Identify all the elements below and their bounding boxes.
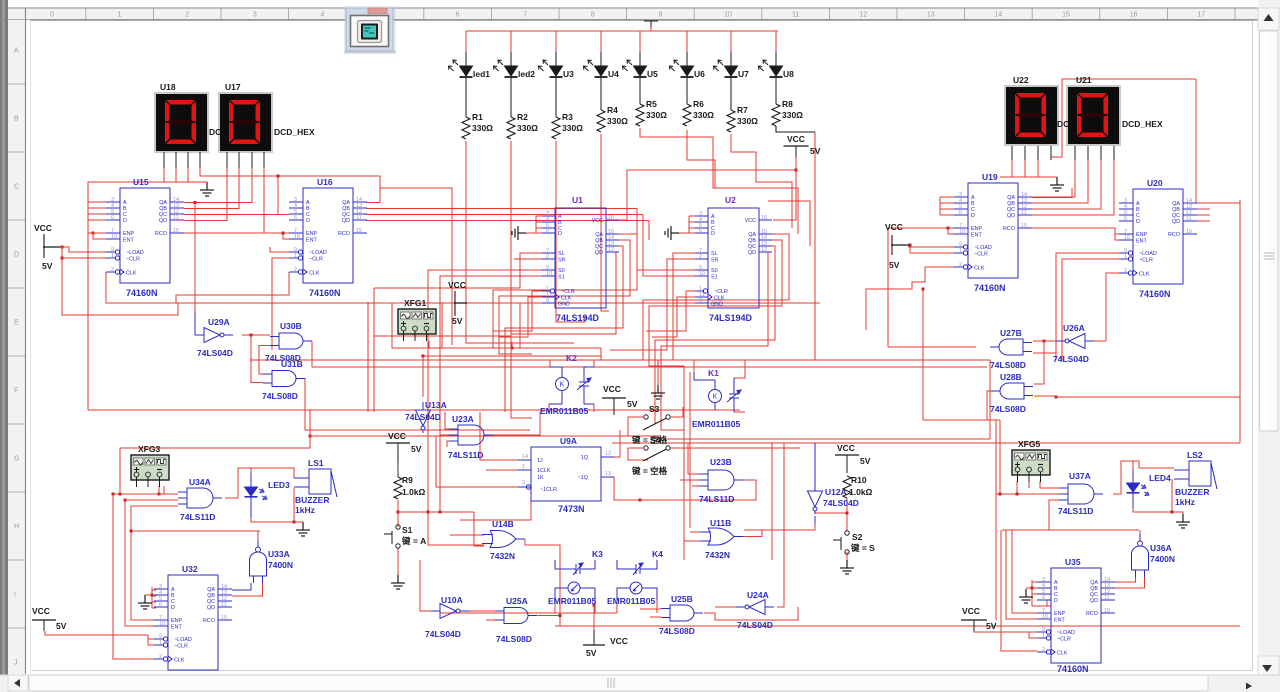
svg-text:~CLR: ~CLR [174, 644, 188, 650]
wire U27B ins [1033, 341, 1056, 353]
svg-text:~LOAD: ~LOAD [1139, 251, 1157, 257]
wire XFG5 terminal drops [1017, 481, 1059, 494]
svg-text:ENT: ENT [1136, 239, 1147, 245]
svg-text:330Ω: 330Ω [517, 123, 538, 133]
svg-text:5V: 5V [860, 456, 871, 466]
wire long left bus y367 [312, 366, 987, 368]
wire U2 QC nest [655, 246, 775, 424]
wire long vertical A [367, 302, 369, 412]
svg-text:VCC: VCC [448, 280, 466, 290]
svg-text:U19: U19 [982, 172, 998, 182]
AND gate U27B 74LS08D (left) [990, 339, 1032, 355]
wire U15 QC row to U16 C [184, 214, 278, 216]
wire U15 A-D feeds [88, 202, 106, 220]
wire U15 ENP wire [88, 232, 106, 234]
wire U32 ENT feed [125, 500, 154, 626]
svg-text:QD: QD [748, 250, 756, 256]
wire bus y348 right2 [512, 347, 601, 349]
ground (left of U35) [1019, 589, 1033, 603]
wire U31B out down [304, 378, 306, 430]
ground (left of U1) [512, 226, 526, 240]
wire U15 CLK route [106, 272, 820, 303]
svg-text:2: 2 [1042, 647, 1045, 653]
svg-text:S2: S2 [852, 532, 863, 542]
svg-text:74LS08D: 74LS08D [262, 391, 298, 401]
svg-text:U23B: U23B [710, 457, 732, 467]
wire R6 bottom run [687, 130, 798, 234]
wire R5 bottom run [640, 128, 798, 234]
wire LED anode bus [466, 30, 778, 32]
relay K1 EMR011B05 [709, 390, 722, 403]
ground (below U22/U21) [1050, 177, 1064, 191]
svg-text:10: 10 [699, 271, 705, 277]
svg-text:330Ω: 330Ω [646, 110, 667, 120]
wire QA tap down [194, 203, 196, 304]
svg-text:15: 15 [1021, 223, 1027, 229]
wire U1 QC nest [505, 246, 623, 412]
svg-text:15: 15 [221, 615, 227, 621]
svg-text:15: 15 [356, 228, 362, 234]
wire U14B top in [450, 534, 484, 536]
svg-text:10: 10 [546, 271, 552, 277]
svg-text:10: 10 [1042, 614, 1048, 620]
floating minimized subcircuit window icon [344, 6, 396, 54]
wire U32 CLK feed [113, 494, 154, 659]
svg-text:4: 4 [320, 12, 324, 19]
wire U16 QA-QD right runs [366, 188, 682, 345]
wire right low bus y530 [1002, 529, 1139, 531]
svg-text:R9: R9 [402, 475, 413, 485]
svg-text:U10A: U10A [441, 595, 463, 605]
wire K1 coil top [694, 360, 745, 389]
wire U23B feeds [680, 443, 699, 486]
svg-text:QD: QD [342, 218, 350, 224]
svg-text:R5: R5 [646, 99, 657, 109]
svg-text:CLK: CLK [309, 271, 320, 277]
wire vertical x923 [922, 289, 924, 420]
wire bus y448 [120, 410, 310, 448]
wire U12A output (blue then red) [814, 516, 816, 524]
wire U23A feeds [440, 412, 449, 447]
VCC supply (above XFG1, center) [454, 291, 456, 316]
svg-text:1Q: 1Q [581, 455, 588, 461]
svg-text:10: 10 [159, 621, 165, 627]
svg-text:6: 6 [1042, 595, 1045, 601]
svg-text:led1: led1 [473, 69, 490, 79]
svg-text:QD: QD [1007, 213, 1015, 219]
wire vert 690 [689, 372, 691, 528]
wire U10A out to U25A [462, 610, 495, 612]
resistor R6 330 [686, 78, 688, 104]
wire U33A right input from U32 QB [232, 583, 263, 596]
svg-text:SL: SL [558, 251, 565, 257]
wire bottom bus y613 [440, 612, 617, 614]
svg-text:330Ω: 330Ω [782, 110, 803, 120]
wire U26A wire [1034, 341, 1066, 384]
LED U8 [775, 52, 777, 66]
svg-text:330Ω: 330Ω [607, 116, 628, 126]
wire U20 CLK route [1106, 273, 1119, 341]
svg-text:6: 6 [159, 602, 162, 608]
wire LS2 top pin wire [1139, 467, 1174, 469]
svg-text:U27B: U27B [1000, 328, 1022, 338]
shift register U2 74LS194D [695, 208, 772, 308]
wire U35 VCC feed [974, 631, 1037, 638]
svg-text:GND: GND [558, 302, 570, 308]
svg-text:I: I [14, 592, 16, 599]
svg-text:U21: U21 [1076, 75, 1092, 85]
svg-text:ENT: ENT [306, 238, 317, 244]
wire left bus from U18 bus [88, 182, 120, 202]
wire U19 ABCD feeds [940, 197, 954, 215]
wire LS1 gnd [302, 522, 304, 528]
wire U20 LOAD CLR [1056, 253, 1119, 360]
svg-text:R7: R7 [737, 105, 748, 115]
wire U19 left tall vertical [887, 228, 889, 347]
wire U16 LOAD feed [270, 247, 289, 252]
VCC supply (left of U19) [891, 235, 893, 255]
svg-text:~CLR: ~CLR [714, 289, 728, 295]
wire U2 ABCD gnd ties [679, 216, 695, 233]
wire U15 ENP-down [87, 233, 89, 410]
wire bus y348 right [442, 342, 512, 348]
wire bus y430 left [305, 429, 530, 431]
svg-text:6: 6 [959, 210, 962, 216]
svg-text:2: 2 [111, 267, 114, 273]
svg-text:U4: U4 [608, 69, 619, 79]
svg-text:74160N: 74160N [974, 283, 1006, 293]
svg-text:1.0kΩ: 1.0kΩ [402, 487, 426, 497]
wire S3 right lead [671, 407, 683, 417]
svg-text:74160N: 74160N [126, 288, 158, 298]
wire R4 bottom run [601, 134, 609, 311]
wire K1 bottoms [700, 403, 745, 412]
svg-text:U3: U3 [563, 69, 574, 79]
svg-text:9: 9 [658, 12, 662, 19]
svg-text:DC: DC [1057, 119, 1069, 129]
svg-text:3: 3 [522, 480, 525, 486]
svg-text:XFG5: XFG5 [1018, 439, 1040, 449]
svg-text:R3: R3 [562, 112, 573, 122]
svg-text:5V: 5V [889, 260, 900, 270]
wire U35 ENT feed [1006, 530, 1037, 619]
wire U34A in3 [131, 505, 178, 507]
wire U24A in right [777, 560, 784, 607]
svg-text:SL: SL [711, 251, 718, 257]
wire U22 bus to gnd [1000, 176, 1057, 178]
wire U34A in2 [125, 499, 178, 501]
svg-text:ENP: ENP [1054, 611, 1065, 617]
wire U32 ENP feed [131, 506, 154, 620]
AND gate U30B 74LS08D [270, 333, 312, 349]
wire VCC1 down [61, 247, 63, 258]
svg-text:B: B [14, 116, 19, 123]
wire R9 tap right [398, 511, 474, 513]
wire S1 to U14B low [428, 512, 484, 545]
svg-text:RCO: RCO [1086, 611, 1098, 617]
svg-text:74LS08D: 74LS08D [659, 626, 695, 636]
wire bus y439 [665, 438, 990, 440]
7-segment display U22 [1004, 75, 1059, 146]
wire U35 QA to U36A left input [1115, 577, 1136, 582]
ground (below U18/U17) [200, 182, 214, 196]
wire U21 pin weave [1051, 79, 1196, 157]
LED U5 [639, 52, 641, 66]
wire VCC1 to LOAD [60, 247, 106, 252]
svg-text:A: A [14, 48, 19, 55]
svg-text:U9A: U9A [560, 436, 577, 446]
svg-text:R2: R2 [517, 112, 528, 122]
svg-text:U26A: U26A [1063, 323, 1085, 333]
JK flip-flop U9A 7473N [518, 447, 614, 501]
svg-text:6: 6 [546, 228, 549, 234]
wire right lower verticals [987, 420, 1000, 620]
svg-text:GND: GND [711, 302, 723, 308]
svg-text:~LOAD: ~LOAD [309, 250, 327, 256]
wire U25A feeds [486, 619, 495, 621]
svg-text:U23A: U23A [452, 414, 474, 424]
wire long vertical B [374, 288, 380, 412]
wire U2 QA nest [643, 234, 789, 360]
svg-text:E: E [14, 320, 19, 327]
resistor R10 1.0k [843, 476, 851, 498]
svg-text:74LS04D: 74LS04D [197, 348, 233, 358]
LED3 (blue) [250, 473, 252, 518]
AND gate U25B 74LS08D [661, 605, 703, 621]
resistor R1 330 [465, 78, 467, 117]
svg-text:VCC: VCC [962, 606, 980, 616]
wire U16 CLK route [176, 272, 289, 303]
svg-text:U24A: U24A [747, 590, 769, 600]
svg-text:14: 14 [522, 454, 528, 460]
svg-text:D: D [171, 605, 175, 611]
wire U19 CLK route [866, 267, 954, 330]
wire U1 SL [374, 253, 542, 288]
svg-text:~CLR: ~CLR [309, 257, 323, 263]
inverter U24A 74LS04D (left) [736, 600, 774, 615]
wire U2 S0S1 [682, 270, 695, 276]
wire R8 long vertical [814, 132, 816, 360]
svg-text:7: 7 [523, 12, 527, 19]
wire vertical 474 [474, 512, 484, 546]
switch S1 (key=A) [384, 525, 400, 548]
svg-text:5V: 5V [411, 444, 422, 454]
wire VCC-R8 feed rail y170 [627, 157, 796, 220]
svg-text:8: 8 [699, 298, 702, 304]
LED U6 [686, 52, 688, 66]
wire U30B low in [259, 346, 270, 375]
svg-text:DCD_HEX: DCD_HEX [1122, 119, 1163, 129]
VCC supply (bottom center) [583, 644, 605, 646]
wire U28B ins [1034, 396, 1056, 397]
svg-text:5V: 5V [627, 399, 638, 409]
svg-text:11: 11 [792, 12, 799, 19]
VCC supply (right of R8) [784, 145, 809, 147]
svg-text:QD: QD [1090, 598, 1098, 604]
inverter U13A 74LS04D (down) [416, 402, 431, 433]
svg-text:VCC: VCC [34, 223, 52, 233]
svg-text:U25A: U25A [506, 596, 528, 606]
wire U30B out down [311, 341, 313, 367]
svg-text:QD: QD [159, 218, 167, 224]
svg-text:VCC: VCC [592, 218, 603, 224]
svg-text:K: K [713, 394, 718, 401]
svg-text:CLK: CLK [174, 658, 185, 664]
wire R7 bottom run [731, 134, 792, 228]
svg-text:R8: R8 [782, 99, 793, 109]
wire right tall vert 1196 [1196, 79, 1197, 203]
svg-text:1CLK: 1CLK [537, 468, 551, 474]
svg-text:11: 11 [1186, 216, 1192, 222]
wire U2 QD nest [661, 252, 772, 430]
svg-text:7400N: 7400N [1150, 554, 1175, 564]
svg-text:XFG1: XFG1 [404, 298, 426, 308]
svg-text:U36A: U36A [1150, 543, 1172, 553]
svg-text:8: 8 [546, 298, 549, 304]
svg-text:12: 12 [761, 247, 767, 253]
svg-text:U13A: U13A [425, 400, 447, 410]
svg-text:6: 6 [294, 215, 297, 221]
wire U18 pin drop [163, 168, 165, 182]
svg-text:ENT: ENT [971, 233, 982, 239]
svg-text:C: C [14, 184, 19, 191]
svg-text:74160N: 74160N [309, 288, 341, 298]
svg-text:U11B: U11B [710, 518, 731, 528]
svg-text:10: 10 [111, 234, 117, 240]
wire U9A bottom loop [460, 493, 531, 520]
svg-text:K4: K4 [652, 549, 663, 559]
wire bus y436 [310, 435, 660, 437]
wire U28B bus right [1056, 203, 1240, 397]
wire bottom bus y626 [555, 625, 1240, 627]
wire U19 RCO to U20 [1032, 228, 1119, 240]
wire U22 pin drops [1012, 160, 1038, 177]
wire LED8 anode drop [775, 31, 777, 52]
AND gate U23B 74LS11D [699, 470, 743, 490]
svg-text:RCO: RCO [155, 231, 167, 237]
svg-text:U16: U16 [317, 177, 333, 187]
wire LED3 bottom [251, 488, 303, 522]
svg-text:键 = S: 键 = S [850, 543, 875, 553]
svg-text:330Ω: 330Ω [737, 116, 758, 126]
LED4 (blue) [1132, 469, 1134, 508]
svg-text:1kHz: 1kHz [295, 505, 315, 515]
svg-text:G: G [14, 456, 19, 463]
wire U34A out [225, 468, 257, 498]
svg-text:U22: U22 [1013, 75, 1029, 85]
wire LS1 top tie [257, 468, 294, 478]
svg-text:5V: 5V [56, 621, 67, 631]
wire K2 bottoms [549, 391, 594, 412]
relay K3 EMR011B05 [570, 563, 586, 575]
buzzer LS2 1kHz [1189, 461, 1211, 486]
svg-text:74LS11D: 74LS11D [1058, 506, 1093, 516]
svg-text:U34A: U34A [189, 477, 211, 487]
svg-text:LED4: LED4 [1149, 473, 1171, 483]
svg-text:15: 15 [1104, 608, 1110, 614]
svg-text:17: 17 [1197, 12, 1205, 19]
wire U32 gnd stub [145, 594, 152, 596]
svg-text:1: 1 [959, 248, 962, 254]
svg-text:U20: U20 [1147, 178, 1163, 188]
VCC supply (above R10) [835, 454, 859, 456]
wire nested corner 4 [768, 201, 810, 246]
counter U20 74160N [1119, 189, 1197, 284]
svg-text:R4: R4 [607, 105, 618, 115]
wire K1 contact top [734, 370, 745, 389]
svg-text:2: 2 [699, 254, 702, 260]
svg-text:DCD_HEX: DCD_HEX [274, 127, 315, 137]
LED U4 [600, 52, 602, 66]
svg-text:1: 1 [118, 12, 122, 19]
svg-text:ENT: ENT [171, 625, 182, 631]
svg-text:13: 13 [605, 471, 611, 477]
svg-text:16: 16 [761, 215, 767, 221]
svg-text:1: 1 [1124, 254, 1127, 260]
svg-text:2: 2 [294, 267, 297, 273]
svg-text:6: 6 [699, 228, 702, 234]
svg-text:RCO: RCO [1168, 232, 1180, 238]
svg-text:U35: U35 [1065, 557, 1081, 567]
svg-text:SR: SR [711, 258, 719, 264]
wire U12A input (blue) from bus y443 [814, 443, 816, 483]
shift register U1 74LS194D [542, 208, 619, 308]
wire S4 right lead [671, 447, 800, 449]
inverter U26A 74LS04D (left) [1056, 334, 1094, 349]
svg-text:U29A: U29A [208, 317, 230, 327]
svg-text:VCC: VCC [837, 443, 855, 453]
svg-text:13: 13 [927, 12, 935, 19]
switch S3 (key=space) [643, 415, 670, 430]
counter U15 74160N [106, 188, 184, 283]
svg-text:~1Q: ~1Q [578, 475, 588, 481]
svg-text:~LOAD: ~LOAD [126, 250, 144, 256]
wire U35 gnd stub [1026, 587, 1032, 589]
svg-text:74LS11D: 74LS11D [448, 450, 483, 460]
svg-text:QD: QD [207, 605, 215, 611]
wire U26A in from right [1094, 340, 1106, 342]
svg-text:74160N: 74160N [1057, 664, 1089, 674]
wire U37A in3 from low bus [1049, 500, 1059, 530]
svg-text:74LS04D: 74LS04D [823, 498, 859, 508]
VCC supply (above R9) [386, 442, 410, 444]
wire VCC stub top center [650, 22, 652, 31]
wire U35 CLK feed [1001, 530, 1037, 651]
wire U23B out [640, 480, 756, 500]
resistor R3 330 [555, 78, 557, 117]
wire U1 VCC rail [619, 170, 627, 220]
wire LED2 anode drop [510, 31, 512, 52]
resistor R5 330 [639, 78, 641, 104]
wire U17 pin4 route [264, 168, 289, 233]
svg-text:ENP: ENP [971, 226, 982, 232]
wire bus y531 left [131, 530, 258, 532]
AND gate U28B 74LS08D (left) [991, 383, 1033, 399]
wire S2 bottom [846, 552, 848, 560]
wire U19 VCC ties [908, 245, 954, 253]
OR gate U11B 7432N [700, 528, 743, 545]
svg-text:键 = 空格: 键 = 空格 [631, 466, 668, 476]
wire LED7 anode drop [730, 31, 732, 52]
wire K4 coil leads [617, 588, 657, 613]
wire S4 left lead [628, 448, 648, 460]
svg-text:H: H [14, 524, 19, 531]
resistor R4 330 [600, 78, 602, 110]
wire LED5 anode drop [639, 31, 641, 52]
AND gate U37A 74LS11D [1059, 484, 1103, 504]
wire U33A out up [258, 531, 260, 546]
svg-text:10: 10 [294, 234, 300, 240]
